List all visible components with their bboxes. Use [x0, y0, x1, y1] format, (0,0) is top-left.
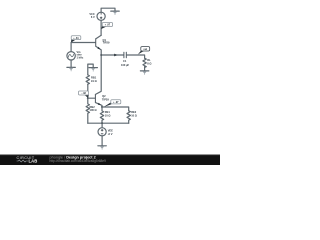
svg-text:6 V: 6 V: [91, 15, 95, 19]
svg-text:10 Ω: 10 Ω: [105, 114, 111, 118]
wire VCC top to ground rail: [101, 8, 115, 12]
voltage source Vin (sine): [67, 43, 75, 68]
svg-text:http://circuitlab.com/c6d3xf5z: http://circuitlab.com/c6d3xf5za5g5r68e9: [50, 159, 107, 163]
svg-text:- .92: - .92: [81, 92, 86, 95]
svg-text:TIP29: TIP29: [103, 41, 110, 45]
wire output node to capacitor: [101, 54, 123, 56]
svg-text:+ .97: + .97: [113, 101, 119, 104]
CircuitLab logo zigzag and LAB: [17, 160, 28, 162]
svg-text:10 Ω: 10 Ω: [131, 114, 137, 118]
svg-text:RL: RL: [147, 58, 151, 62]
svg-text:8 Ω: 8 Ω: [147, 62, 151, 66]
junction collector node: [101, 106, 103, 108]
svg-text:out: out: [143, 48, 147, 51]
junction output node: [100, 54, 102, 56]
ground G2 under Vin: [67, 67, 75, 71]
svg-text:RE2: RE2: [131, 110, 137, 114]
wire VCC bottom to Q1 collector: [100, 20, 102, 35]
transistor Q2 TIP29: [88, 55, 102, 107]
svg-text:91 Ω: 91 Ω: [91, 79, 97, 83]
svg-text:-6 V: -6 V: [108, 132, 113, 136]
wire Q1 base: [71, 42, 95, 44]
node label out: [138, 47, 150, 55]
resistor RL 8 ohm: [143, 58, 146, 67]
ground G5 under VEE: [98, 146, 106, 150]
svg-text:1 kHz: 1 kHz: [77, 56, 84, 60]
current arrow on output wire: [114, 54, 117, 57]
wire collector node to RE2: [102, 107, 129, 111]
svg-text:RE1: RE1: [105, 110, 111, 114]
svg-text:TIP29: TIP29: [102, 98, 109, 102]
voltage source VEE V3: [98, 123, 106, 146]
probe label box C (-.92): [79, 91, 89, 98]
resistor RB1 91 ohm: [86, 75, 89, 84]
wire capacitor to RL: [127, 55, 145, 58]
capacitor C1 100uF: [124, 52, 126, 58]
wire bottom rail: [88, 122, 129, 124]
svg-text:+ .81: + .81: [73, 37, 79, 40]
wire RL to ground: [144, 67, 146, 71]
svg-text:100 Ω: 100 Ω: [90, 108, 97, 112]
svg-text:RB2: RB2: [90, 105, 96, 109]
transistor Q1 TIP29: [95, 35, 101, 55]
resistor RB2 100 ohm: [86, 98, 89, 123]
wire RB1 bottom to Q2 base node: [87, 84, 89, 98]
svg-text:Q2: Q2: [102, 94, 106, 98]
ground G4 under RL: [140, 71, 148, 75]
voltage source VCC V1: [97, 12, 105, 20]
junction VEE rail node: [101, 122, 103, 124]
svg-text:+ .97: + .97: [105, 24, 111, 27]
probe label box B2 (+.81): [71, 36, 81, 43]
probe label box B1 (+97): [101, 23, 112, 30]
footer bar: [0, 155, 220, 166]
svg-text:C1: C1: [123, 59, 127, 63]
ground G1: [111, 11, 119, 15]
junction Q2 base node: [87, 97, 89, 99]
svg-text:100 µF: 100 µF: [121, 63, 130, 67]
resistor RE1 10 ohm: [100, 107, 103, 123]
svg-text:LAB: LAB: [29, 159, 38, 164]
ground G3 above RB1: [88, 64, 93, 75]
probe label box D (+.97): [104, 100, 121, 107]
resistor RE2 10 ohm: [127, 111, 130, 123]
